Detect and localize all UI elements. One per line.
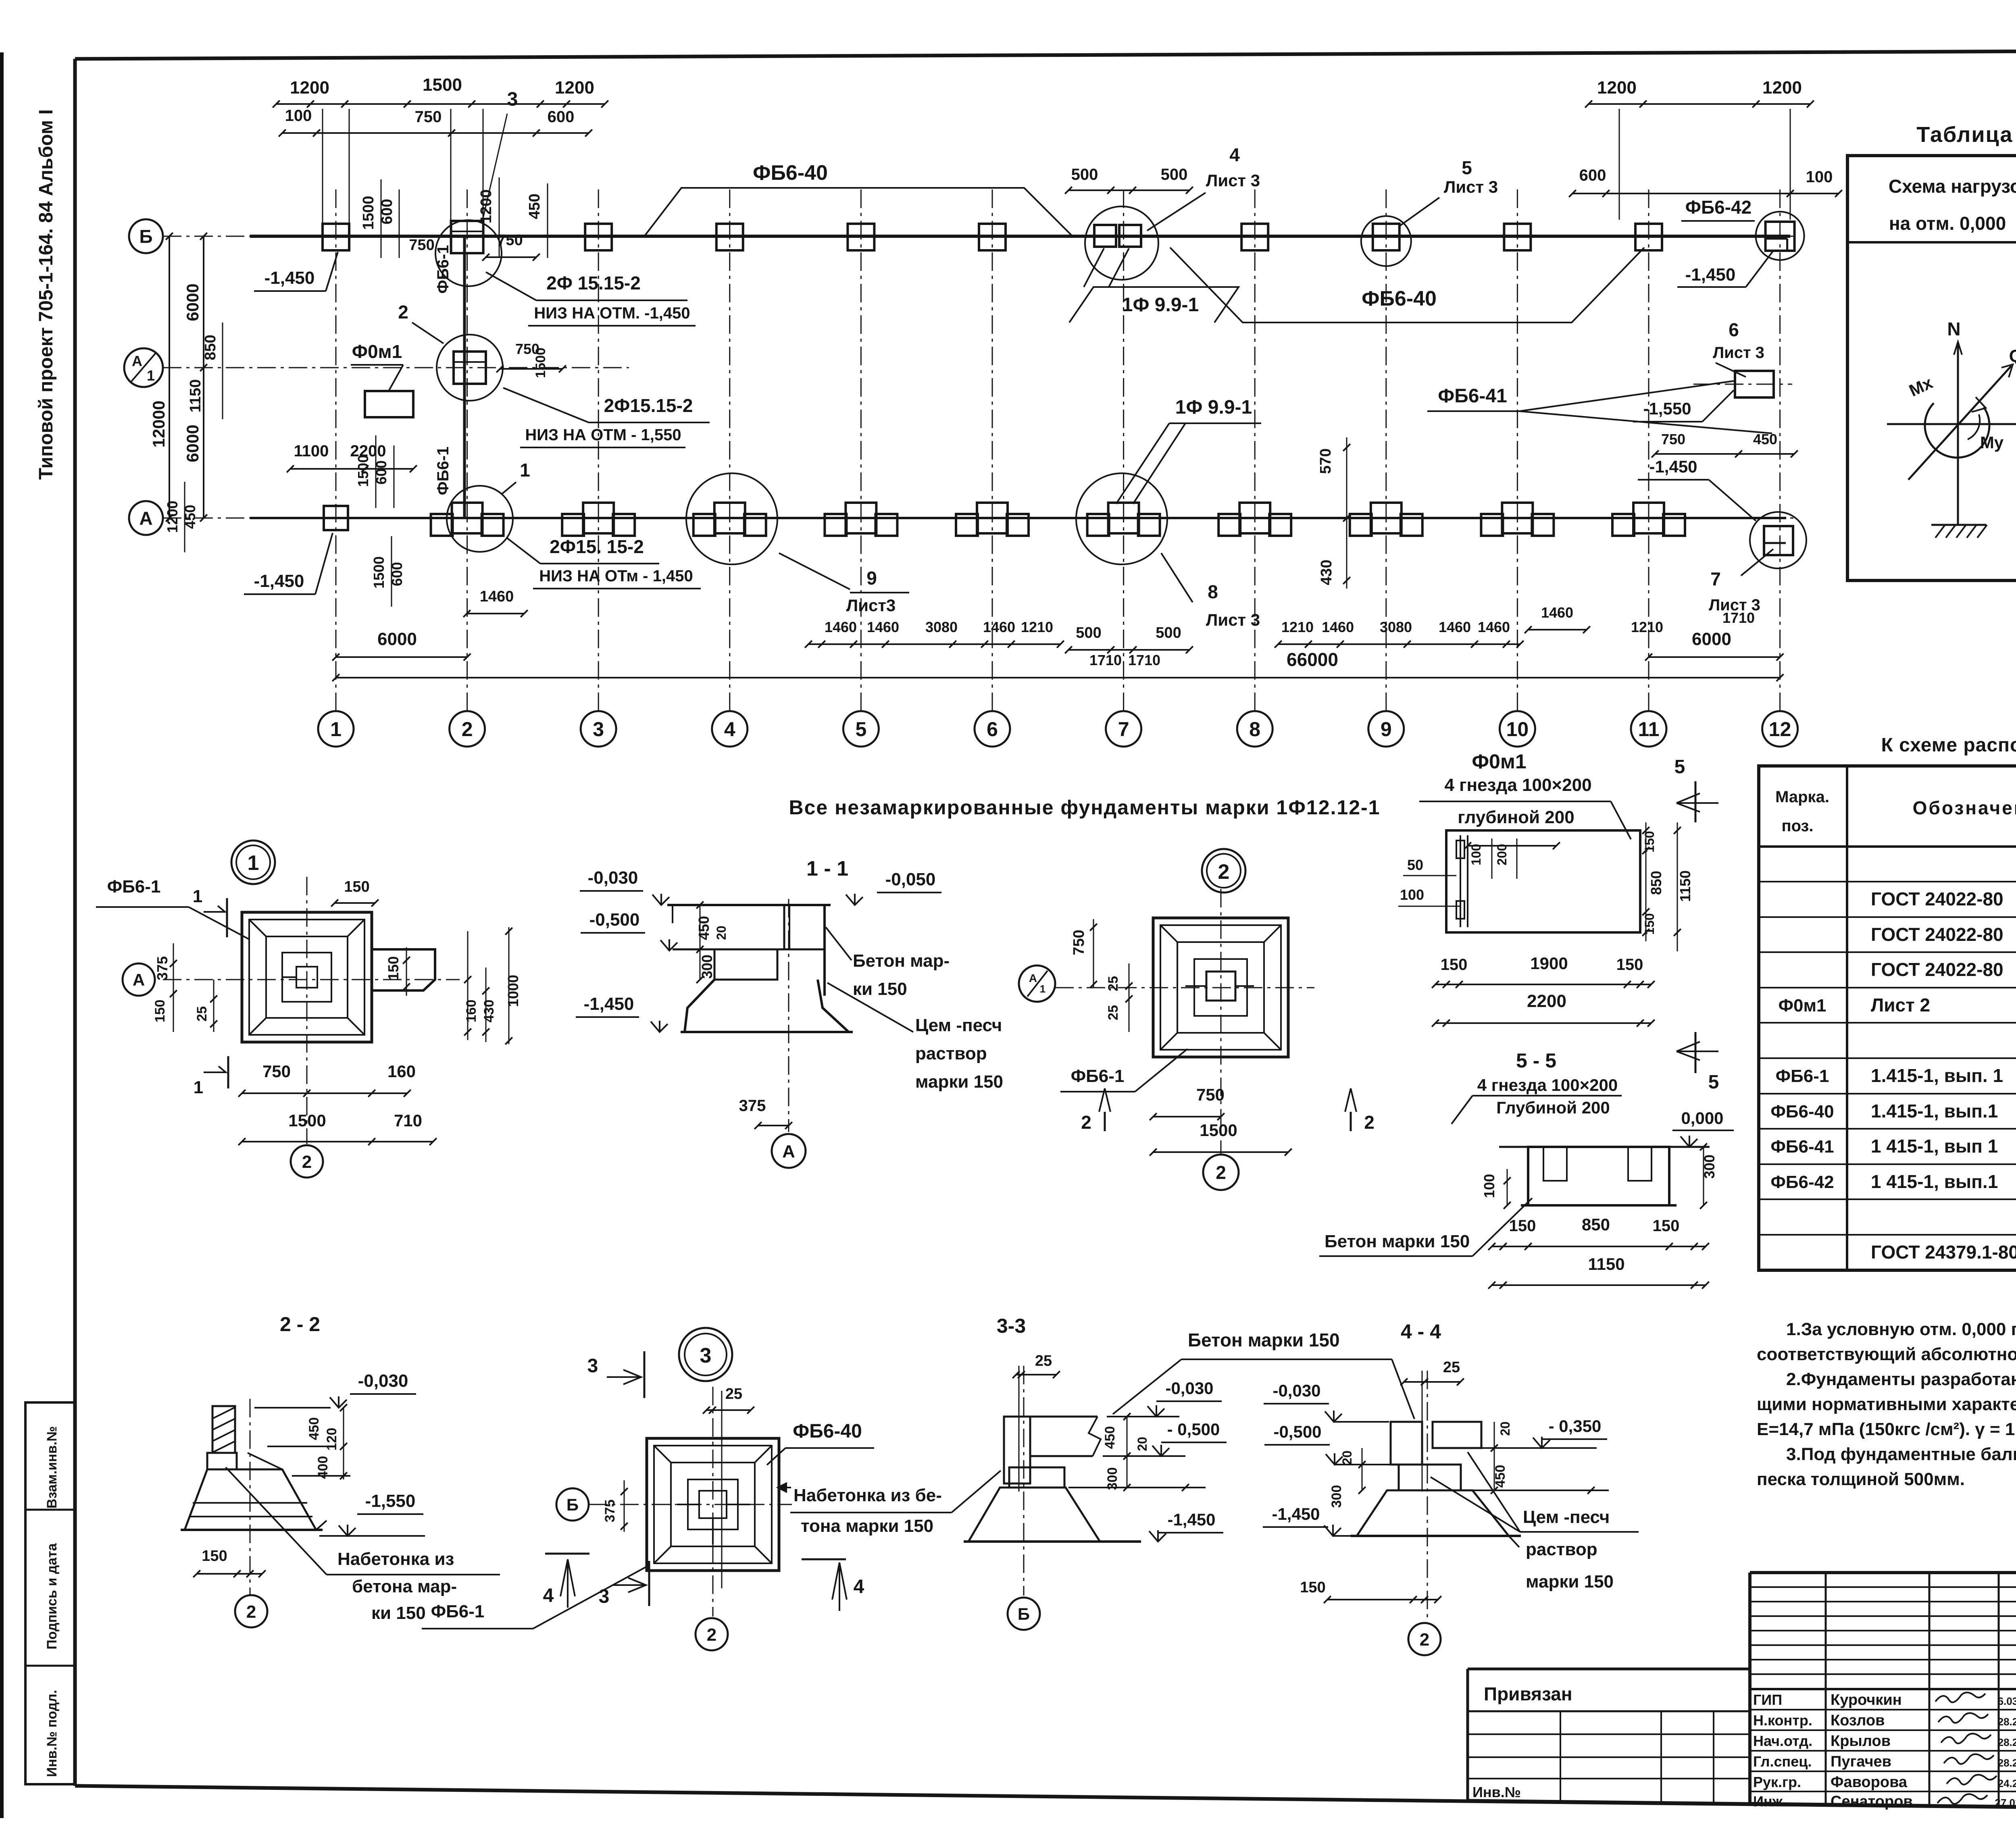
svg-text:1200: 1200 xyxy=(555,78,594,98)
svg-text:1.415-1, вып. 1: 1.415-1, вып. 1 xyxy=(1871,1065,2003,1086)
svg-text:500: 500 xyxy=(1156,624,1181,641)
svg-text:3-3: 3-3 xyxy=(997,1315,1026,1337)
detail 3 center beam marks xyxy=(699,1491,727,1518)
svg-text:2: 2 xyxy=(1218,860,1230,884)
svg-text:Пугачев: Пугачев xyxy=(1831,1753,1891,1770)
svg-text:К схеме расположения фундаме: К схеме расположения фундаментов и фунда… xyxy=(1881,734,2016,756)
svg-text:10: 10 xyxy=(1506,718,1529,741)
FOm1 plan rect xyxy=(1446,830,1640,932)
svg-text:450: 450 xyxy=(306,1417,322,1440)
svg-text:1000: 1000 xyxy=(505,975,521,1007)
frame bottom line xyxy=(75,1786,1468,1801)
svg-text:1460: 1460 xyxy=(1322,619,1354,635)
foundation col1 axis A xyxy=(324,506,348,530)
section 2-2 pedestal xyxy=(207,1453,237,1469)
svg-text:бетона мар-: бетона мар- xyxy=(352,1577,457,1596)
svg-text:ФБ6-1: ФБ6-1 xyxy=(434,245,452,294)
svg-text:6000: 6000 xyxy=(377,629,417,649)
svg-text:25: 25 xyxy=(1035,1352,1052,1369)
svg-text:ФБ6-40: ФБ6-40 xyxy=(1362,287,1437,310)
svg-text:НИЗ НА ОТм - 1,450: НИЗ НА ОТм - 1,450 xyxy=(539,567,693,585)
svg-text:150: 150 xyxy=(1441,956,1468,974)
detail 3 title circle xyxy=(679,1328,732,1381)
svg-text:3080: 3080 xyxy=(925,619,958,635)
svg-text:150: 150 xyxy=(1653,1217,1680,1235)
svg-text:тона марки 150: тона марки 150 xyxy=(801,1516,933,1536)
svg-text:1: 1 xyxy=(1040,983,1045,995)
svg-text:850: 850 xyxy=(1582,1215,1610,1234)
svg-text:5: 5 xyxy=(1462,157,1472,178)
svg-text:450: 450 xyxy=(1102,1426,1118,1449)
svg-text:750: 750 xyxy=(415,108,442,126)
svg-text:1460: 1460 xyxy=(1478,619,1510,635)
svg-text:ФБ6-1: ФБ6-1 xyxy=(431,1602,485,1621)
svg-text:25: 25 xyxy=(194,1006,210,1022)
svg-text:570: 570 xyxy=(1317,448,1334,474)
svg-text:Глубиной 200: Глубиной 200 xyxy=(1496,1098,1610,1117)
svg-text:4 гнезда 100×200: 4 гнезда 100×200 xyxy=(1444,775,1591,795)
axis A line with foundation beams xyxy=(250,517,1786,519)
svg-text:Бетон марки 150: Бетон марки 150 xyxy=(1325,1232,1470,1251)
svg-text:2: 2 xyxy=(1216,1162,1226,1183)
svg-text:850: 850 xyxy=(202,335,219,360)
svg-text:2: 2 xyxy=(398,302,408,322)
svg-text:Набетонка из: Набетонка из xyxy=(337,1549,454,1569)
section 2-2 base line xyxy=(181,1529,323,1531)
svg-text:150: 150 xyxy=(152,1000,168,1023)
title block small grid top left xyxy=(1750,1586,2016,1588)
svg-text:Инв.№ подл.: Инв.№ подл. xyxy=(44,1690,60,1777)
svg-text:750: 750 xyxy=(262,1062,291,1081)
svg-text:1.415-1, вып.1: 1.415-1, вып.1 xyxy=(1871,1101,1998,1121)
svg-text:2: 2 xyxy=(302,1152,312,1172)
svg-text:Взам.инв.№: Взам.инв.№ xyxy=(44,1426,60,1508)
svg-text:1150: 1150 xyxy=(187,379,204,412)
svg-text:450: 450 xyxy=(1753,431,1777,447)
detail 3 axis circle B xyxy=(556,1488,589,1521)
svg-text:25: 25 xyxy=(1106,976,1121,991)
svg-text:1Ф 9.9-1: 1Ф 9.9-1 xyxy=(1122,294,1199,316)
load table outer frame xyxy=(1847,156,2016,580)
svg-text:6000: 6000 xyxy=(183,424,202,462)
svg-text:марки 150: марки 150 xyxy=(915,1072,1003,1092)
grid circles 1-12 xyxy=(318,711,354,747)
svg-text:150: 150 xyxy=(1509,1217,1536,1235)
foundation col9 axis B xyxy=(1373,224,1400,250)
beam FB6-1 vertical on column 2 xyxy=(463,236,466,518)
svg-text:N: N xyxy=(1947,318,1960,339)
svg-text:ки 150: ки 150 xyxy=(371,1603,426,1623)
svg-text:-0,030: -0,030 xyxy=(1165,1379,1213,1398)
svg-text:-1,450: -1,450 xyxy=(1167,1510,1215,1529)
marker circle 1 col2 axis A xyxy=(447,486,513,552)
svg-text:2Ф 15.15-2: 2Ф 15.15-2 xyxy=(546,273,641,293)
svg-text:150: 150 xyxy=(385,956,402,980)
svg-text:Таблица нормативных нагрузок: Таблица нормативных нагрузок на фундамен… xyxy=(1916,123,2016,147)
frame top line xyxy=(75,49,2016,59)
svg-text:Цем -песч: Цем -песч xyxy=(1523,1507,1610,1527)
svg-text:1150: 1150 xyxy=(1677,870,1693,902)
svg-text:на отм. 0,000: на отм. 0,000 xyxy=(1889,213,2006,234)
FOm1 section 5 marks xyxy=(1695,781,1697,822)
svg-text:А: А xyxy=(133,970,145,989)
top dimension row 2 line xyxy=(282,132,589,134)
detail 3 axes xyxy=(589,1504,792,1505)
axis A/1 line xyxy=(163,367,629,368)
svg-text:300: 300 xyxy=(1329,1485,1344,1508)
foundation col12 axis B corner xyxy=(1766,222,1795,251)
svg-text:3: 3 xyxy=(507,89,518,110)
svg-text:-0,500: -0,500 xyxy=(1273,1422,1321,1441)
svg-text:1500: 1500 xyxy=(360,196,377,230)
svg-text:3080: 3080 xyxy=(1380,619,1412,635)
svg-text:5 - 5: 5 - 5 xyxy=(1516,1049,1556,1072)
svg-text:100: 100 xyxy=(1806,168,1833,186)
svg-text:-1,450: -1,450 xyxy=(584,994,634,1014)
svg-text:5: 5 xyxy=(855,718,866,741)
svg-text:ФБ6-40: ФБ6-40 xyxy=(1770,1102,1834,1121)
svg-text:600: 600 xyxy=(548,108,575,126)
svg-text:Лист 3: Лист 3 xyxy=(1206,171,1260,190)
svg-text:750: 750 xyxy=(1196,1085,1225,1104)
svg-text:Инж.: Инж. xyxy=(1753,1793,1787,1810)
svg-text:Лист 3: Лист 3 xyxy=(1709,596,1760,614)
svg-text:7: 7 xyxy=(1118,718,1129,741)
svg-text:1: 1 xyxy=(248,851,259,875)
svg-text:100: 100 xyxy=(1400,886,1424,903)
section 3-3 axis xyxy=(1018,1366,1020,1492)
svg-text:Подпись и дата: Подпись и дата xyxy=(44,1543,60,1650)
svg-text:ки 150: ки 150 xyxy=(853,979,907,999)
title block personnel rows xyxy=(1750,1709,2016,1710)
svg-text:Типовой проект 705-1-164. 84: Типовой проект 705-1-164. 84 Альбом I xyxy=(35,109,57,480)
detail 3 foundation plan squares xyxy=(647,1438,779,1571)
scan edge strip left xyxy=(0,52,4,1818)
svg-text:20: 20 xyxy=(1340,1450,1354,1465)
svg-text:25: 25 xyxy=(1443,1359,1460,1376)
svg-text:6: 6 xyxy=(1729,319,1739,340)
svg-text:щими нормативными характерист: щими нормативными характеристиками : φН=… xyxy=(1757,1394,2016,1414)
svg-text:-1,550: -1,550 xyxy=(365,1491,416,1511)
svg-text:ФБ6-40: ФБ6-40 xyxy=(753,161,828,185)
svg-text:Лист 3: Лист 3 xyxy=(1713,344,1764,362)
svg-text:Марка.: Марка. xyxy=(1775,788,1829,806)
svg-text:ФБ6-41: ФБ6-41 xyxy=(1770,1137,1834,1157)
section 3-3 axis circle B xyxy=(1008,1598,1040,1630)
svg-text:100: 100 xyxy=(1481,1174,1497,1198)
svg-text:ГИП: ГИП xyxy=(1753,1692,1782,1708)
svg-text:Рук.гр.: Рук.гр. xyxy=(1753,1774,1801,1790)
svg-text:Бетон мар-: Бетон мар- xyxy=(853,951,950,971)
svg-text:1500: 1500 xyxy=(371,556,387,589)
svg-text:-1,450: -1,450 xyxy=(264,268,315,288)
dimension 6000 col1-col2 xyxy=(336,656,467,658)
svg-text:500: 500 xyxy=(1076,624,1101,641)
svg-text:Сенаторов: Сенаторов xyxy=(1831,1793,1913,1810)
svg-text:А: А xyxy=(132,353,142,369)
svg-text:1200: 1200 xyxy=(1597,78,1637,98)
top dimension row 1 line xyxy=(276,103,605,105)
svg-text:2Ф15.15-2: 2Ф15.15-2 xyxy=(604,395,693,416)
svg-text:ФБ6-1: ФБ6-1 xyxy=(107,877,161,897)
svg-text:ГОСТ 24022-80: ГОСТ 24022-80 xyxy=(1871,924,2004,945)
monolithic foundation FOm1 plan xyxy=(365,391,413,417)
svg-text:Гл.спец.: Гл.спец. xyxy=(1753,1753,1812,1770)
svg-text:50: 50 xyxy=(1407,857,1423,873)
svg-text:500: 500 xyxy=(1161,166,1188,183)
svg-text:9: 9 xyxy=(866,568,877,589)
svg-text:25: 25 xyxy=(1106,1005,1121,1020)
svg-text:1500: 1500 xyxy=(1200,1121,1237,1140)
svg-text:710: 710 xyxy=(394,1111,422,1130)
svg-text:8: 8 xyxy=(1208,581,1218,602)
svg-text:раствор: раствор xyxy=(1526,1540,1597,1559)
svg-text:850: 850 xyxy=(1648,871,1664,895)
detail 2 axis circle 2 xyxy=(1203,1155,1239,1190)
svg-text:Набетонка из бе-: Набетонка из бе- xyxy=(793,1486,942,1505)
vertical dimension line 12000 xyxy=(169,236,170,518)
svg-text:7: 7 xyxy=(1710,568,1721,589)
detail 1 center beam mark xyxy=(296,967,317,988)
svg-text:5: 5 xyxy=(1708,1072,1719,1093)
svg-text:Схема нагрузок: Схема нагрузок xyxy=(1889,176,2016,197)
svg-text:НИЗ НА ОТМ - 1,550: НИЗ НА ОТМ - 1,550 xyxy=(525,426,681,444)
svg-text:1460: 1460 xyxy=(825,619,857,635)
svg-text:1460: 1460 xyxy=(1541,604,1573,621)
detail 3 section mark 4 right xyxy=(802,1558,846,1560)
section 2-2 footing xyxy=(185,1469,316,1530)
svg-text:Лист3: Лист3 xyxy=(846,596,896,615)
svg-text:Козлов: Козлов xyxy=(1831,1712,1885,1729)
load schema axes diagram xyxy=(1957,343,1959,524)
svg-text:Е=14,7 мПа (150кгс /см²).: Е=14,7 мПа (150кгс /см²). γ = 1,8т/м³. xyxy=(1757,1419,2016,1439)
svg-text:-1,450: -1,450 xyxy=(254,571,304,591)
detail 1 axis circle A xyxy=(123,963,155,996)
svg-text:1Ф 9.9-1: 1Ф 9.9-1 xyxy=(1175,397,1252,418)
svg-text:А: А xyxy=(1029,972,1037,984)
svg-text:6000: 6000 xyxy=(1692,629,1731,649)
svg-text:4: 4 xyxy=(1229,144,1240,165)
svg-text:-0,030: -0,030 xyxy=(1272,1381,1320,1400)
detail 2 foundation plan squares xyxy=(1153,918,1288,1057)
axis circle B xyxy=(129,219,163,253)
svg-text:1210: 1210 xyxy=(1281,619,1314,635)
svg-text:1.За условную отм. 0,000 прин: 1.За условную отм. 0,000 принят уровень … xyxy=(1786,1319,2016,1339)
svg-text:1 - 1: 1 - 1 xyxy=(806,857,848,880)
svg-text:28.2.84: 28.2.84 xyxy=(1998,1716,2016,1728)
detail 3 axis circle 2 xyxy=(696,1618,728,1650)
svg-text:27.02.84: 27.02.84 xyxy=(1995,1797,2016,1809)
detail 1 axis circle 2 xyxy=(291,1145,323,1178)
svg-text:ФБ6-40: ФБ6-40 xyxy=(793,1421,862,1442)
margin stamp column xyxy=(25,1402,75,1784)
svg-text:300: 300 xyxy=(1105,1467,1120,1490)
svg-text:ФБ6-1: ФБ6-1 xyxy=(434,447,452,495)
vertical dimension line 6000/6000 xyxy=(203,236,204,518)
svg-text:750: 750 xyxy=(497,232,523,249)
marker circle 8 col7 axis A xyxy=(1076,473,1167,564)
section 2-2 axis circle 2 xyxy=(250,1399,251,1596)
svg-text:-0,500: -0,500 xyxy=(589,910,640,930)
section 1-1 axis and circle A xyxy=(788,899,789,1132)
FOm1 slots xyxy=(1460,835,1461,927)
svg-text:-1,450: -1,450 xyxy=(1649,457,1697,476)
svg-text:1200: 1200 xyxy=(290,78,329,98)
svg-text:1210: 1210 xyxy=(1631,619,1663,635)
detail 3 section mark 4 left xyxy=(545,1553,589,1555)
svg-text:66000: 66000 xyxy=(1287,649,1338,670)
svg-text:12000: 12000 xyxy=(149,401,168,448)
svg-text:1500: 1500 xyxy=(423,75,462,95)
svg-text:4 гнезда 100×200: 4 гнезда 100×200 xyxy=(1477,1076,1618,1094)
svg-text:соответствующий абсолютной о: соответствующий абсолютной отметке на ме… xyxy=(1757,1344,2016,1364)
svg-text:450: 450 xyxy=(696,916,712,940)
svg-text:-1,550: -1,550 xyxy=(1643,399,1691,418)
section 5-5 beam xyxy=(1499,1146,1710,1148)
svg-text:2 - 2: 2 - 2 xyxy=(280,1313,320,1336)
detail 2 section marks 2 xyxy=(1099,1088,1110,1112)
svg-text:150: 150 xyxy=(1300,1579,1325,1596)
detail 2 axis vertical xyxy=(1220,889,1222,1154)
spec table rows xyxy=(1759,881,2016,882)
foundation col12 axis A corner in circle 7 xyxy=(1764,526,1793,555)
svg-text:1: 1 xyxy=(330,718,342,741)
axis circle A/1 xyxy=(124,348,163,387)
svg-text:Ф0м1: Ф0м1 xyxy=(1472,750,1526,773)
svg-text:430: 430 xyxy=(1318,560,1335,585)
svg-text:750: 750 xyxy=(409,237,434,254)
svg-text:2: 2 xyxy=(462,718,473,741)
foundation clusters on axis A xyxy=(452,503,483,533)
svg-text:1200: 1200 xyxy=(164,501,181,533)
svg-text:1210: 1210 xyxy=(1021,619,1053,635)
svg-text:Б: Б xyxy=(139,226,152,247)
svg-text:150: 150 xyxy=(344,878,369,895)
svg-text:Н.контр.: Н.контр. xyxy=(1753,1712,1812,1729)
svg-text:3: 3 xyxy=(587,1355,598,1377)
svg-text:- 0,500: - 0,500 xyxy=(1167,1420,1220,1439)
svg-text:150: 150 xyxy=(1642,913,1657,934)
dimension 6000 col11-col12 xyxy=(1649,656,1780,658)
svg-text:750: 750 xyxy=(1070,930,1087,955)
foundations on axis B xyxy=(323,224,349,250)
svg-text:1710: 1710 xyxy=(1089,652,1122,668)
svg-text:1900: 1900 xyxy=(1530,954,1568,973)
svg-text:1500: 1500 xyxy=(533,347,548,378)
svg-text:ГОСТ 24022-80: ГОСТ 24022-80 xyxy=(1871,888,2004,909)
svg-text:Ф0м1: Ф0м1 xyxy=(1778,996,1826,1015)
svg-text:А: А xyxy=(782,1142,795,1161)
marker circle 2 col2 axis A/1 xyxy=(437,335,503,401)
svg-text:375: 375 xyxy=(739,1097,766,1115)
title block top cell Tp 705-1-164.84 xyxy=(1750,1688,2016,1690)
column axis vertical lines xyxy=(335,189,337,711)
axis circle A xyxy=(129,501,163,535)
svg-text:поз.: поз. xyxy=(1781,817,1813,835)
svg-text:Крылов: Крылов xyxy=(1831,1733,1891,1750)
svg-text:2: 2 xyxy=(1364,1112,1375,1133)
svg-text:150: 150 xyxy=(1616,956,1643,974)
svg-text:430: 430 xyxy=(481,1000,497,1023)
svg-text:Все незамаркированные фунда: Все незамаркированные фундаменты марки 1… xyxy=(789,796,1381,819)
svg-text:500: 500 xyxy=(1071,166,1098,183)
svg-text:8: 8 xyxy=(1249,718,1260,741)
section 1-1 footing xyxy=(714,949,777,980)
svg-text:1460: 1460 xyxy=(480,588,514,605)
svg-text:4 - 4: 4 - 4 xyxy=(1401,1320,1441,1343)
svg-text:ФБ6-41: ФБ6-41 xyxy=(1438,385,1507,407)
detail 1 beam rect right xyxy=(372,949,435,990)
svg-text:1: 1 xyxy=(193,886,202,906)
svg-text:Курочкин: Курочкин xyxy=(1831,1692,1902,1708)
svg-text:ФБ6-1: ФБ6-1 xyxy=(1071,1066,1125,1086)
svg-text:1460: 1460 xyxy=(867,619,899,635)
dimension 66000 overall xyxy=(336,677,1780,678)
svg-text:3: 3 xyxy=(700,1344,712,1367)
svg-text:Нач.отд.: Нач.отд. xyxy=(1753,1733,1812,1749)
svg-text:750: 750 xyxy=(1661,431,1685,447)
svg-text:150: 150 xyxy=(202,1548,227,1565)
svg-text:450: 450 xyxy=(1493,1465,1508,1488)
svg-text:24.2.84: 24.2.84 xyxy=(1998,1777,2016,1789)
detail 1 axes xyxy=(163,979,460,980)
title block main frame xyxy=(1750,1571,2016,1574)
detail 2 center beam mark xyxy=(1206,972,1235,1001)
svg-text:4: 4 xyxy=(724,718,735,741)
svg-text:2: 2 xyxy=(246,1602,256,1622)
svg-text:1 415-1, вып.1: 1 415-1, вып.1 xyxy=(1871,1171,1998,1192)
svg-text:2.Фундаменты разработаны для: 2.Фундаменты разработаны для сухих непуч… xyxy=(1786,1369,2016,1389)
svg-text:1200: 1200 xyxy=(1762,78,1802,98)
svg-text:2: 2 xyxy=(1420,1630,1429,1650)
svg-text:раствор: раствор xyxy=(915,1044,987,1063)
svg-text:марки 150: марки 150 xyxy=(1526,1572,1614,1592)
section 2-2 hatched column xyxy=(212,1406,235,1453)
svg-text:Мy: Мy xyxy=(1980,433,2004,452)
detail 1 foundation plan squares xyxy=(242,912,372,1042)
spec table header row xyxy=(1759,845,2016,848)
svg-text:28.2.84: 28.2.84 xyxy=(1998,1736,2016,1748)
foundation col7 axis B pair 1F9.9-1 xyxy=(1094,225,1116,247)
frame left line xyxy=(73,59,77,1786)
section 4-4 axis circle 2 xyxy=(1408,1623,1441,1655)
section 4-4 footing xyxy=(1399,1465,1461,1490)
svg-text:-0,030: -0,030 xyxy=(588,868,638,888)
svg-text:6000: 6000 xyxy=(183,283,202,321)
svg-text:глубиной 200: глубиной 200 xyxy=(1458,807,1574,827)
svg-text:ГОСТ 24022-80: ГОСТ 24022-80 xyxy=(1871,959,2004,980)
svg-text:1500: 1500 xyxy=(288,1111,326,1130)
svg-text:1460: 1460 xyxy=(983,619,1015,635)
svg-text:А: А xyxy=(139,508,152,529)
svg-text:300: 300 xyxy=(699,955,715,979)
svg-text:5: 5 xyxy=(1674,756,1685,778)
svg-text:1: 1 xyxy=(147,367,155,384)
svg-text:песка толщиной 500мм.: песка толщиной 500мм. xyxy=(1757,1469,1965,1489)
svg-text:ФБ6-42: ФБ6-42 xyxy=(1770,1172,1834,1192)
svg-text:6: 6 xyxy=(987,718,998,741)
title block left extension privyazan xyxy=(1468,1668,1750,1671)
svg-text:2200: 2200 xyxy=(1527,991,1566,1011)
svg-text:160: 160 xyxy=(387,1062,416,1081)
svg-text:НИЗ НА ОТМ. -1,450: НИЗ НА ОТМ. -1,450 xyxy=(534,304,690,322)
svg-text:0,000: 0,000 xyxy=(1681,1109,1723,1128)
svg-text:2: 2 xyxy=(1081,1112,1091,1133)
foundation col12 axis A/1 xyxy=(1735,371,1774,397)
witness lines col1-2 top xyxy=(322,109,323,226)
svg-text:100: 100 xyxy=(1469,844,1483,865)
svg-text:200: 200 xyxy=(1495,844,1509,865)
